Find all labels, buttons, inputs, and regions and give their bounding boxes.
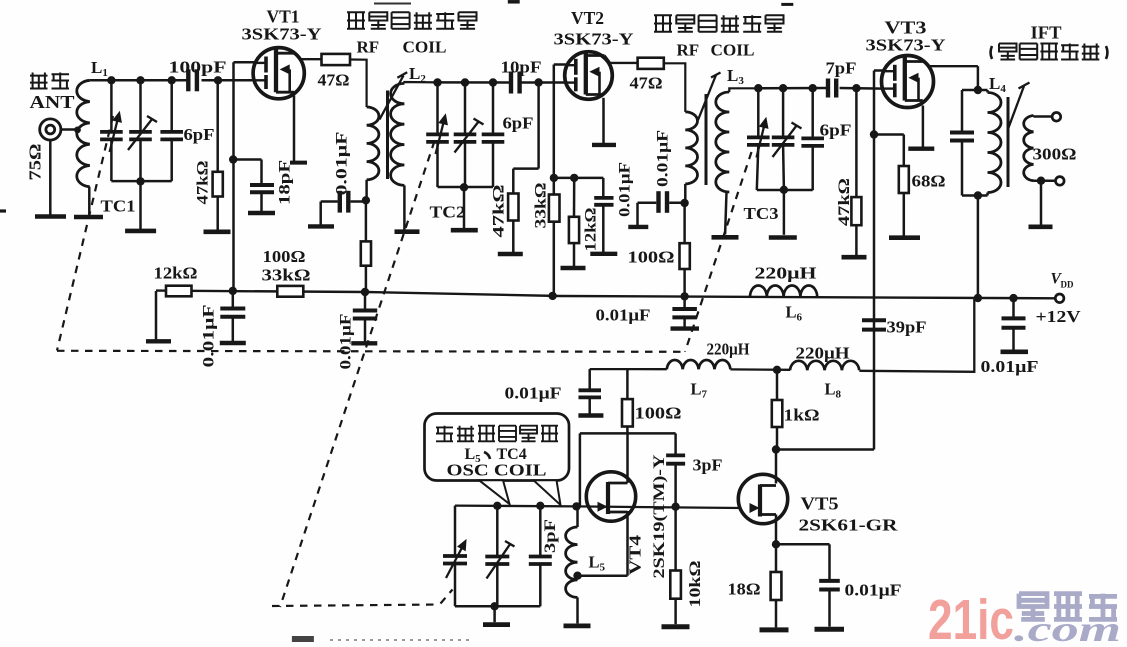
svg-text:39pF: 39pF bbox=[887, 318, 927, 337]
svg-text:6pF: 6pF bbox=[503, 114, 534, 133]
svg-text:100pF: 100pF bbox=[169, 58, 227, 77]
svg-text:75Ω: 75Ω bbox=[26, 144, 45, 181]
svg-text:0.01μF: 0.01μF bbox=[655, 130, 672, 187]
svg-text:220μH: 220μH bbox=[707, 340, 750, 359]
svg-text:TC3: TC3 bbox=[744, 204, 779, 223]
svg-text:IFT: IFT bbox=[1031, 23, 1062, 43]
svg-text:68Ω: 68Ω bbox=[912, 172, 946, 191]
svg-text:VT3: VT3 bbox=[885, 18, 927, 38]
svg-text:33kΩ: 33kΩ bbox=[533, 182, 550, 228]
svg-text:100Ω: 100Ω bbox=[635, 404, 682, 423]
svg-text:TC1: TC1 bbox=[101, 197, 136, 216]
svg-text:100Ω: 100Ω bbox=[263, 247, 306, 266]
svg-text:0.01μF: 0.01μF bbox=[596, 306, 651, 325]
svg-text:6pF: 6pF bbox=[184, 125, 215, 144]
svg-text:300Ω: 300Ω bbox=[1033, 145, 1077, 164]
svg-text:18pF: 18pF bbox=[277, 160, 294, 205]
svg-text:0.01μF: 0.01μF bbox=[505, 384, 562, 403]
svg-text:ANT: ANT bbox=[30, 92, 75, 112]
svg-text:220μH: 220μH bbox=[796, 344, 850, 363]
svg-text:47kΩ: 47kΩ bbox=[836, 178, 853, 226]
svg-text:VT1: VT1 bbox=[267, 7, 300, 27]
svg-text:100Ω: 100Ω bbox=[628, 248, 675, 267]
svg-text:33kΩ: 33kΩ bbox=[262, 266, 311, 285]
svg-text:0.01μF: 0.01μF bbox=[845, 581, 902, 600]
svg-text:220μH: 220μH bbox=[755, 264, 817, 283]
svg-text:7pF: 7pF bbox=[826, 59, 857, 78]
svg-text:0.01μF: 0.01μF bbox=[201, 305, 218, 368]
svg-text:47kΩ: 47kΩ bbox=[491, 184, 508, 237]
svg-text:TC2: TC2 bbox=[430, 203, 466, 222]
svg-text:OSC COIL: OSC COIL bbox=[447, 461, 547, 480]
svg-text:6pF: 6pF bbox=[820, 121, 852, 140]
svg-text:47Ω: 47Ω bbox=[630, 74, 663, 93]
svg-text:RF: RF bbox=[357, 38, 380, 57]
svg-text:+12V: +12V bbox=[1036, 307, 1082, 326]
svg-text:3SK73-Y: 3SK73-Y bbox=[554, 30, 634, 49]
svg-text:47kΩ: 47kΩ bbox=[195, 160, 212, 204]
svg-text:COIL: COIL bbox=[403, 38, 447, 57]
svg-text:47Ω: 47Ω bbox=[318, 71, 350, 90]
svg-text:21ic: 21ic bbox=[928, 588, 1014, 642]
svg-text:12kΩ: 12kΩ bbox=[583, 207, 600, 251]
svg-text:10pF: 10pF bbox=[501, 58, 542, 77]
svg-text:0.01μF: 0.01μF bbox=[338, 314, 355, 370]
svg-text:12kΩ: 12kΩ bbox=[154, 264, 198, 283]
svg-text:VT5: VT5 bbox=[801, 494, 839, 514]
svg-text:VT4: VT4 bbox=[626, 535, 645, 575]
svg-text:2SK61-GR: 2SK61-GR bbox=[799, 516, 899, 535]
svg-text:DD: DD bbox=[1061, 280, 1074, 290]
svg-text:RF: RF bbox=[677, 41, 700, 60]
svg-text:18Ω: 18Ω bbox=[728, 580, 761, 599]
svg-text:1kΩ: 1kΩ bbox=[784, 406, 820, 425]
svg-text:3pF: 3pF bbox=[693, 456, 723, 475]
svg-text:2SK19(TM)-Y: 2SK19(TM)-Y bbox=[651, 454, 668, 579]
svg-text:COIL: COIL bbox=[711, 41, 755, 60]
svg-text:VT2: VT2 bbox=[571, 8, 604, 28]
svg-text:0.01μF: 0.01μF bbox=[981, 357, 1039, 376]
svg-text:3SK73-Y: 3SK73-Y bbox=[866, 36, 946, 55]
svg-text:10kΩ: 10kΩ bbox=[687, 560, 704, 607]
svg-text:0.01μF: 0.01μF bbox=[617, 162, 634, 217]
svg-text:0.01μF: 0.01μF bbox=[334, 132, 351, 196]
svg-text:3SK73-Y: 3SK73-Y bbox=[242, 25, 322, 44]
svg-text:3pF: 3pF bbox=[542, 519, 559, 553]
svg-text:.com: .com bbox=[1014, 609, 1121, 642]
